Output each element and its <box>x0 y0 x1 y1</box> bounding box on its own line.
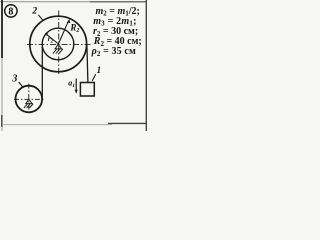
acceleration arrow a1 <box>75 79 78 94</box>
pulley 2 axle support (fixed axis with hatching) <box>53 44 63 54</box>
frame bottom rule <box>2 123 146 124</box>
label 1 with leader tick <box>92 65 101 81</box>
label 2 with leader tick <box>31 7 43 21</box>
svg-text:1: 1 <box>97 65 102 75</box>
load 1 box <box>80 83 94 97</box>
radius line r2 with arrowhead <box>45 33 59 44</box>
pulley 3 vertical centerline <box>28 84 30 115</box>
pulley 3 axle support (fixed axis with hatching) <box>24 99 33 108</box>
frame left border <box>1 0 3 131</box>
pulley 2 outer circle <box>30 16 87 72</box>
radius arrow R2 <box>58 19 70 44</box>
pulley 2 inner circle <box>42 28 74 60</box>
svg-text:3: 3 <box>11 73 17 84</box>
svg-text:2: 2 <box>31 7 37 17</box>
pulley 2 horizontal centerline <box>27 44 91 46</box>
frame top rule <box>0 1 147 3</box>
svg-text:8: 8 <box>8 6 13 17</box>
problem number badge (circled 8) <box>5 5 17 18</box>
belt rope from pulley 2 inner step down to pulley 3 <box>41 47 43 99</box>
pulley 2 vertical centerline <box>58 11 60 76</box>
pulley 3 circle <box>15 86 42 113</box>
rope from pulley 2 outer step down to load 1 <box>87 45 88 83</box>
pulley 3 horizontal centerline <box>14 98 44 100</box>
frame right border <box>145 0 147 131</box>
label 3 with leader tick <box>11 73 23 87</box>
